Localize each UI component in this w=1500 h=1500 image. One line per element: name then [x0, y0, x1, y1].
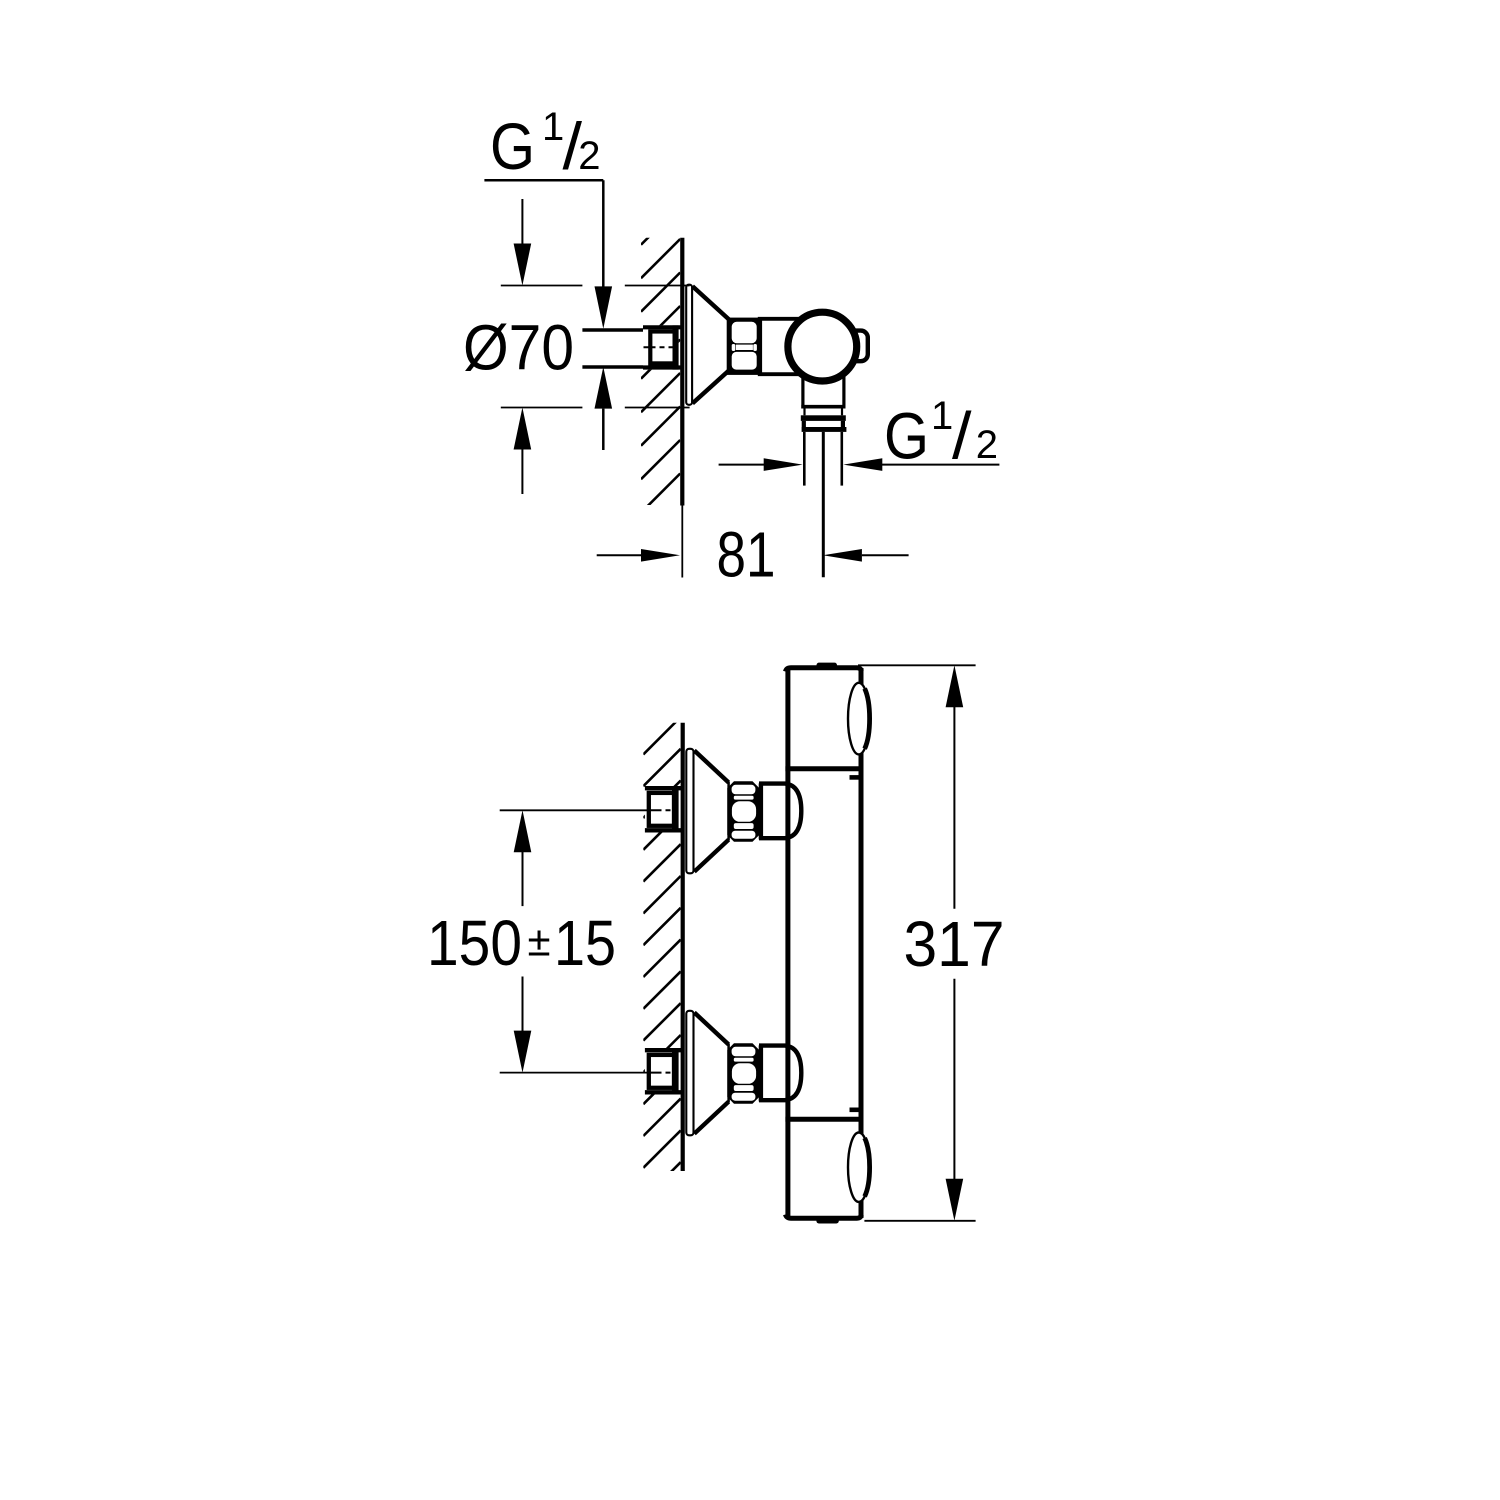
bar top edge — [786, 668, 862, 672]
right notch below top separation — [850, 775, 859, 780]
Ø70 upper extension line — [501, 285, 690, 287]
spacer cylinder between nut and valve body — [758, 319, 800, 374]
svg-text:150: 150 — [427, 907, 522, 979]
Ø70 upper arrow — [514, 199, 532, 286]
G1/2 leader arrow to pipe bottom — [595, 367, 613, 450]
wall hatch (top view) — [641, 206, 680, 547]
upper thread fitting (bottom view) — [645, 786, 681, 832]
wall hatch (bottom view) — [643, 717, 680, 1200]
centerline (dash-dot) of pipe — [644, 346, 678, 348]
svg-text:2: 2 — [578, 134, 600, 178]
temperature knob tab (right of valve body) — [847, 331, 868, 362]
G1/2 hose dimension line left + arrow — [719, 458, 803, 471]
svg-text:2: 2 — [976, 423, 998, 467]
hose connector rings — [801, 409, 847, 432]
G 1/2 label (wall side) — [490, 105, 601, 183]
G 1/2 label (hose) — [884, 394, 998, 472]
svg-text:Ø70: Ø70 — [463, 312, 574, 384]
svg-text:G: G — [884, 398, 929, 472]
thread fitting square (top view) — [643, 325, 681, 369]
svg-text:1: 1 — [542, 105, 564, 149]
81 dimension left arrow — [597, 549, 680, 562]
svg-text:/: / — [952, 398, 972, 472]
150±15 dimension line with arrows — [514, 810, 532, 1072]
bottom nub — [816, 1217, 838, 1224]
G1/2 leader line with arrow to pipe top — [595, 180, 613, 328]
bar bottom edge — [786, 1215, 862, 1219]
pipe nipple through wall — [582, 330, 648, 367]
svg-text:15: 15 — [554, 907, 616, 979]
lower dome connector (bottom view) — [759, 1045, 801, 1101]
cap separation line (bottom) — [785, 1117, 861, 1122]
upper escutcheon (bottom view) — [686, 749, 728, 874]
317 bottom extension line — [864, 1220, 975, 1222]
Ø70 lower arrow — [514, 408, 532, 495]
hose outline — [804, 432, 842, 486]
svg-text:317: 317 — [904, 908, 1005, 980]
top grip ellipse — [848, 683, 870, 755]
escutcheon (top view) — [686, 285, 729, 405]
top nub — [817, 663, 838, 670]
lower escutcheon (bottom view) — [686, 1011, 728, 1136]
wall extension line down to 81 dim — [681, 506, 683, 578]
150±15 lower extension line — [500, 1072, 649, 1074]
svg-text:±: ± — [528, 918, 551, 965]
81 dimension right arrow — [823, 549, 909, 562]
neck below valve body — [801, 375, 845, 407]
valve body circle — [788, 312, 857, 381]
G1/2 leader underline — [484, 179, 603, 182]
thermostat bar body fill — [785, 666, 863, 1218]
svg-text:1: 1 — [931, 394, 953, 438]
bar right edge — [859, 668, 864, 1218]
svg-text:G: G — [490, 109, 535, 183]
Ø70 lower extension line — [501, 407, 690, 409]
svg-text:81: 81 — [717, 519, 776, 591]
bar left edge — [785, 668, 790, 1218]
cap separation line (top) — [785, 766, 861, 771]
upper hex nut (bottom view) — [727, 781, 759, 841]
wall line (top view) — [680, 238, 684, 506]
thermostat bar body — [785, 663, 869, 1224]
hose centerline — [822, 432, 825, 577]
wall line (bottom view) — [681, 723, 685, 1171]
right notch above bottom separation — [850, 1108, 859, 1113]
upper dome connector (bottom view) — [759, 783, 801, 839]
317 dimension line with arrows — [946, 665, 964, 1221]
bottom grip ellipse — [848, 1133, 870, 1202]
150±15 upper extension line — [500, 809, 649, 811]
lower hex nut (bottom view) — [727, 1043, 759, 1103]
G1/2 hose dimension line right + arrow — [843, 458, 999, 471]
lower thread fitting (bottom view) — [645, 1048, 681, 1094]
hex nut (top view) — [727, 318, 762, 375]
317 top extension line — [858, 664, 976, 666]
